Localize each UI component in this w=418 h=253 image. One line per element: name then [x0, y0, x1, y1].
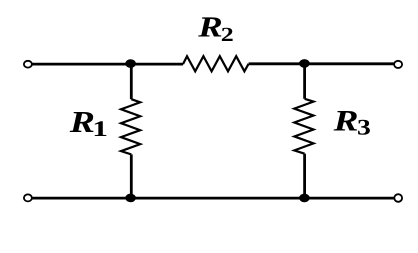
svg-text:R: R — [197, 11, 223, 43]
svg-text:R: R — [332, 104, 358, 137]
svg-text:2: 2 — [221, 24, 234, 46]
svg-text:1: 1 — [92, 116, 108, 141]
svg-text:3: 3 — [357, 114, 371, 139]
svg-text:R: R — [68, 105, 95, 139]
